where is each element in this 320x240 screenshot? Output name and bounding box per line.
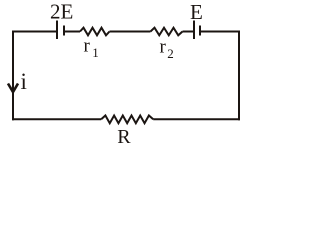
svg-text:2: 2 (167, 46, 174, 61)
svg-text:r: r (84, 36, 91, 57)
svg-text:R: R (117, 126, 131, 148)
svg-text:i: i (21, 69, 27, 94)
svg-text:2E: 2E (50, 0, 73, 24)
svg-text:E: E (190, 0, 203, 24)
svg-text:1: 1 (92, 45, 99, 60)
svg-text:r: r (160, 36, 167, 57)
